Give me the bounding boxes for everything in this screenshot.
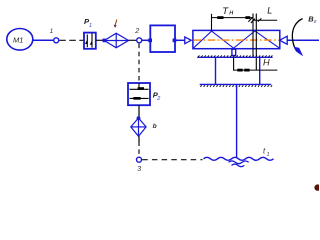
flow meter V (horizontal rhombus) [104, 33, 128, 48]
dimension H line [234, 69, 278, 71]
conveyor trough body [193, 30, 280, 48]
svg-text:2: 2 [134, 28, 139, 35]
svg-text:2: 2 [156, 96, 160, 102]
upper wall surface with hatch [197, 55, 272, 57]
dashed wire down to node 3 [138, 142, 140, 157]
flow arrow label above meter [114, 20, 117, 28]
svg-text:г: г [314, 19, 317, 25]
dimension Tн tick right [245, 16, 250, 19]
dimension Tн extension left [211, 14, 213, 31]
dimension H ticks [237, 69, 242, 72]
water symbol wave 3 [232, 164, 245, 167]
svg-text:L: L [267, 5, 272, 15]
stray dot bottom right [314, 184, 320, 190]
label Bг [308, 14, 317, 25]
dimension Tн tick left [217, 16, 223, 19]
junction square left of box [148, 39, 152, 43]
svg-text:1: 1 [50, 28, 54, 35]
label t1 [263, 147, 270, 158]
dimension Tн line [211, 17, 253, 19]
water feed line down [236, 84, 238, 157]
right support leg [259, 57, 261, 84]
transducer P1 [84, 17, 96, 49]
controller box [150, 25, 175, 52]
wire P2 to flow meter 2 [138, 105, 140, 118]
water symbol wave 2 [229, 161, 249, 164]
lower ground surface with hatch [200, 84, 272, 86]
dashed wire node 2 down to P2 [138, 44, 140, 83]
svg-text:3: 3 [137, 166, 141, 173]
svg-text:M1: M1 [13, 35, 23, 44]
junction dot at meter 2 top [137, 116, 141, 120]
dimension H extension left [233, 58, 235, 71]
node 3 [137, 157, 142, 173]
svg-text:н: н [229, 7, 234, 16]
wire meter 2 down [138, 136, 140, 141]
rotation arrowhead [294, 47, 304, 57]
wire box to drive triangle [176, 39, 185, 41]
node 2 [134, 28, 141, 43]
wire P1 to flow meter [96, 39, 104, 41]
wire M1 to node 1 [33, 39, 53, 41]
svg-text:1: 1 [267, 152, 270, 158]
wire node 1 to P1 (dashed) [59, 39, 83, 41]
label Tн [222, 6, 234, 17]
svg-text:1: 1 [89, 23, 92, 29]
flow meter 2 (vertical rhombus) [131, 118, 146, 136]
motor M1 [7, 29, 33, 51]
dashed wire node 3 to water [142, 159, 202, 161]
support square under trough valley [232, 49, 236, 55]
wire flow meter to node 2 [129, 39, 137, 41]
outlet triangle (right) [280, 36, 288, 44]
drive triangle (left) [185, 37, 191, 44]
svg-text:b: b [153, 123, 157, 130]
node 1 [50, 28, 59, 43]
water surface wavy line [204, 157, 274, 160]
wire node 2 to box [142, 39, 151, 41]
axis centerline (orange dash-dot) [194, 39, 280, 41]
left support leg [215, 57, 217, 84]
output shaft wire [287, 39, 319, 41]
dimension L line [253, 19, 278, 21]
rotation arc Bг [292, 19, 302, 50]
junction square at flow meter inlet [103, 39, 107, 43]
slash ticks at L [248, 17, 252, 21]
svg-text:H: H [263, 58, 270, 68]
dimension L extension lines (double vertical) [252, 14, 254, 58]
junction square right of box [173, 39, 177, 43]
transducer P2 [128, 83, 160, 105]
screw zigzag inside trough [193, 31, 279, 48]
